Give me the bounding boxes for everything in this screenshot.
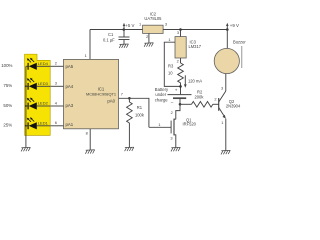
120 mA arrow xyxy=(184,75,186,85)
IC1 MC68HC908QT1 xyxy=(64,59,119,128)
svg-text:pA5: pA5 xyxy=(66,64,74,69)
wire +5V rail left segment xyxy=(90,29,143,31)
node battery bottom xyxy=(179,103,182,106)
svg-text:100k: 100k xyxy=(135,113,145,118)
svg-text:200k: 200k xyxy=(195,95,205,100)
wire +5V rail down to IC1 pin1 xyxy=(89,30,91,60)
transistor Q2 2N3904 xyxy=(218,98,220,111)
svg-text:2: 2 xyxy=(55,61,57,66)
wire R3 to battery xyxy=(180,83,182,95)
svg-text:R3: R3 xyxy=(168,64,174,69)
wire battery to Q1 drain xyxy=(176,104,180,119)
resistor R1 xyxy=(128,97,131,100)
svg-text:+: + xyxy=(175,88,178,93)
node IC3 junction xyxy=(179,28,182,31)
svg-text:LM317: LM317 xyxy=(189,44,202,49)
wire LED1 to pin6 xyxy=(50,125,63,127)
svg-text:2: 2 xyxy=(146,34,148,39)
wire LED2 to pin4 xyxy=(50,105,63,107)
svg-text:1: 1 xyxy=(168,37,170,42)
svg-text:pA4: pA4 xyxy=(66,84,74,89)
svg-text:2N3904: 2N3904 xyxy=(226,104,241,109)
svg-text:under: under xyxy=(155,92,166,97)
wire IC1 PA0 to Q1 gate xyxy=(119,98,149,127)
regulator IC2 UA78L05 xyxy=(143,25,164,33)
svg-text:0.1 µF: 0.1 µF xyxy=(103,37,115,42)
LED block xyxy=(25,54,51,135)
LED LED1 (25%) xyxy=(26,117,50,129)
wire battery bottom xyxy=(179,99,181,104)
svg-text:120 mA: 120 mA xyxy=(188,78,202,83)
svg-text:2: 2 xyxy=(214,97,216,102)
svg-text:IRF520: IRF520 xyxy=(183,122,197,127)
svg-text:1: 1 xyxy=(139,22,141,27)
LED LED4 (100%) xyxy=(26,58,50,70)
svg-text:7: 7 xyxy=(121,91,123,96)
svg-text:pA3: pA3 xyxy=(66,103,74,108)
svg-text:3: 3 xyxy=(170,136,172,141)
ground R1 xyxy=(125,147,134,151)
wire LED3 to pin3 xyxy=(50,85,63,87)
node +5V xyxy=(123,28,126,31)
wire LED4 to pin2 xyxy=(50,65,63,67)
svg-text:8: 8 xyxy=(86,131,88,136)
wire +9V rail xyxy=(163,29,227,31)
svg-text:+9 V: +9 V xyxy=(230,23,239,28)
svg-text:pA0: pA0 xyxy=(107,99,115,104)
ground under C1 xyxy=(119,44,128,48)
svg-text:1: 1 xyxy=(221,120,223,125)
svg-text:LED3: LED3 xyxy=(38,81,49,86)
ground Q2 emitter xyxy=(221,150,230,154)
svg-text:50%: 50% xyxy=(3,103,12,108)
ground Q1 source xyxy=(171,147,180,151)
buzzer xyxy=(226,30,228,49)
wire IC3 adj xyxy=(164,42,180,86)
svg-text:25%: 25% xyxy=(3,123,12,128)
svg-text:R1: R1 xyxy=(137,105,143,110)
node adj junction xyxy=(179,85,182,88)
wire to R2 xyxy=(180,103,192,105)
svg-text:10: 10 xyxy=(168,71,173,76)
svg-text:3: 3 xyxy=(55,81,57,86)
svg-text:3: 3 xyxy=(177,30,179,35)
svg-text:2: 2 xyxy=(177,59,179,64)
regulator IC3 LM317 xyxy=(175,37,186,58)
svg-text:MC68HC908QT1: MC68HC908QT1 xyxy=(86,91,116,96)
LED LED2 (50%) xyxy=(26,98,50,110)
svg-text:Buzzer: Buzzer xyxy=(233,39,246,44)
svg-text:3: 3 xyxy=(165,22,167,27)
svg-text:6: 6 xyxy=(55,120,57,125)
svg-text:+5 V: +5 V xyxy=(125,23,134,28)
ground under IC2 xyxy=(144,43,153,47)
svg-text:1: 1 xyxy=(85,53,87,58)
svg-text:LED4: LED4 xyxy=(38,61,49,66)
ground LED bus xyxy=(21,147,30,151)
svg-text:3: 3 xyxy=(221,85,223,90)
svg-text:1: 1 xyxy=(158,122,160,127)
capacitor C1 xyxy=(123,30,125,38)
ground IC1 pin8 xyxy=(85,150,94,154)
wire LED cathode bus xyxy=(25,66,27,147)
svg-text:LED2: LED2 xyxy=(38,101,49,106)
svg-text:LED1: LED1 xyxy=(38,121,49,126)
svg-text:UA78L05: UA78L05 xyxy=(144,16,162,21)
svg-text:75%: 75% xyxy=(3,83,12,88)
wire IC1 pin8 ground xyxy=(89,129,91,150)
svg-text:2: 2 xyxy=(171,110,173,115)
svg-text:–: – xyxy=(171,99,174,104)
svg-text:100%: 100% xyxy=(1,63,12,68)
svg-text:pA1: pA1 xyxy=(66,122,74,127)
resistor R2 xyxy=(192,102,213,108)
LED LED3 (75%) xyxy=(26,78,50,90)
svg-text:charge: charge xyxy=(155,98,168,103)
wire IC2 ground xyxy=(148,33,150,42)
wire IC3 out xyxy=(180,58,182,63)
transistor Q1 IRF520 xyxy=(173,119,175,136)
node +9V xyxy=(226,28,229,31)
wire R2 to Q2 base xyxy=(213,103,219,105)
resistor R3 xyxy=(178,63,184,83)
